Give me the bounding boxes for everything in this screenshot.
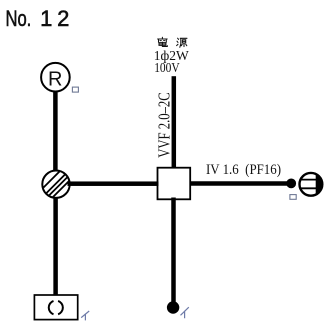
svg-text:1: 1 (40, 6, 52, 31)
label ロ (katakana, right lamp) (290, 195, 296, 200)
wire R drop (R to hatched box) (53, 91, 58, 171)
wire power feed (vertical from source to junction box) (172, 76, 177, 169)
lamp (outdoor light) symbol (299, 171, 327, 198)
svg-text:100V: 100V (154, 60, 180, 75)
title No. 12 (6, 6, 70, 31)
label イ (katakana, near switch) (181, 307, 189, 318)
label イ (katakana, ceiling box) (81, 311, 89, 320)
ceiling rosette box (square hooked ceiling) (34, 295, 77, 320)
wire right horizontal (junction box to outdoor lamp) (190, 181, 289, 186)
junction box (158, 168, 191, 200)
wire left horizontal (junction box to lamp holder) (68, 181, 159, 186)
svg-text:No.: No. (6, 6, 32, 31)
svg-text:R: R (48, 68, 62, 90)
pull box (hatched circle) (26, 160, 90, 205)
label 源 (kanji "source") (177, 38, 187, 47)
svg-text:VVF 2.0–2C: VVF 2.0–2C (155, 92, 174, 158)
switch イ (filled circle) (167, 301, 179, 313)
label ロ (katakana, near R) (72, 87, 78, 92)
wire switch drop (junction box down to switch) (171, 198, 176, 304)
wire left drop (hatched box to ceiling box) (53, 197, 58, 296)
lamp receptacle R (41, 63, 70, 92)
svg-text:IV 1.6 (PF16): IV 1.6 (PF16) (206, 162, 281, 178)
svg-text:2: 2 (57, 6, 69, 31)
label 電 (kanji "electric") (158, 37, 168, 46)
node (wire joint dot before lamp) (286, 179, 296, 189)
